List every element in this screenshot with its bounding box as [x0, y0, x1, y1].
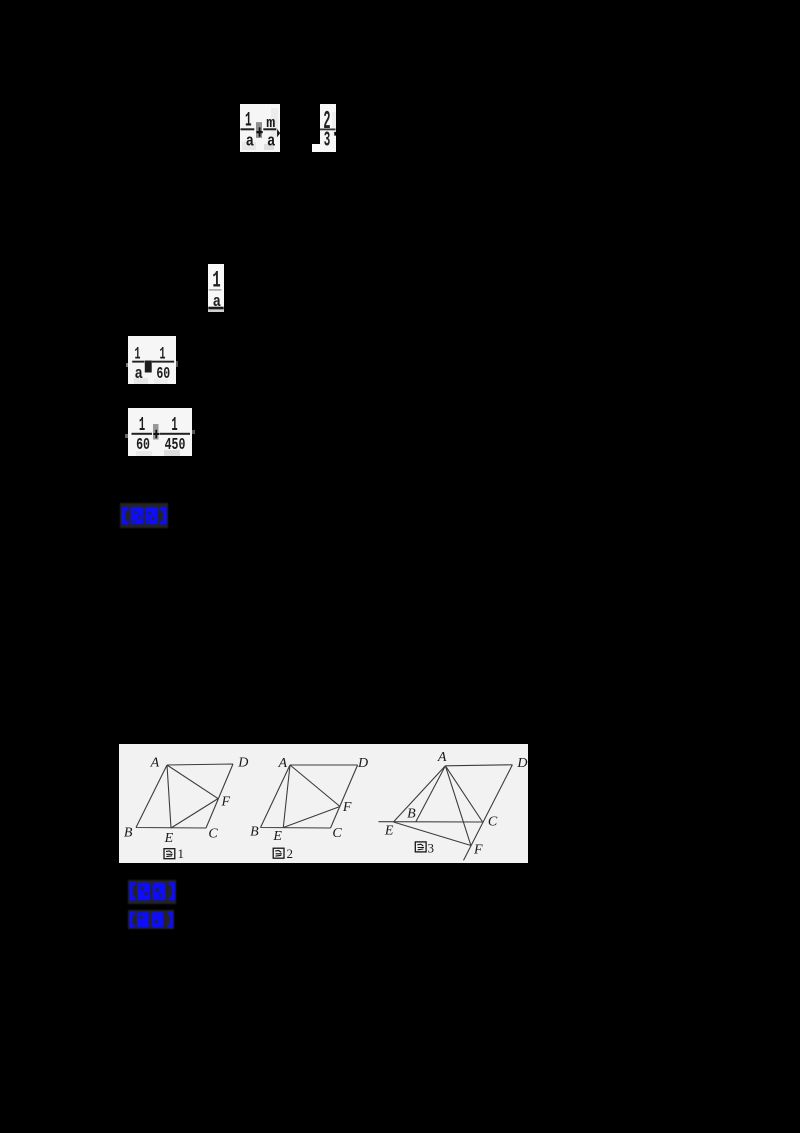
- svg-text:D: D: [357, 756, 368, 771]
- svg-text:E: E: [164, 831, 174, 846]
- svg-text:a: a: [246, 131, 254, 151]
- svg-text:E: E: [272, 829, 282, 844]
- svg-text:60: 60: [156, 365, 170, 384]
- svg-text:a: a: [135, 364, 143, 384]
- svg-text:A: A: [437, 750, 447, 765]
- svg-text:2: 2: [287, 846, 294, 861]
- svg-text:60: 60: [136, 436, 150, 455]
- svg-text:C: C: [332, 826, 342, 841]
- svg-text:A: A: [278, 756, 288, 771]
- svg-text:E: E: [384, 824, 394, 839]
- svg-text:a: a: [267, 131, 275, 151]
- svg-text:D: D: [237, 756, 248, 771]
- svg-text:3: 3: [324, 129, 331, 152]
- svg-text:D: D: [516, 756, 527, 771]
- svg-text:B: B: [124, 826, 133, 841]
- svg-text:3: 3: [428, 841, 435, 856]
- svg-text:A: A: [150, 756, 160, 771]
- svg-text:F: F: [221, 794, 231, 809]
- svg-text:450: 450: [165, 436, 186, 455]
- svg-text:B: B: [407, 807, 416, 822]
- svg-text:C: C: [208, 827, 218, 842]
- svg-text:F: F: [342, 800, 352, 815]
- svg-text:C: C: [488, 815, 498, 830]
- svg-text:B: B: [250, 825, 259, 840]
- svg-text:F: F: [473, 843, 483, 858]
- svg-text:1: 1: [178, 846, 185, 861]
